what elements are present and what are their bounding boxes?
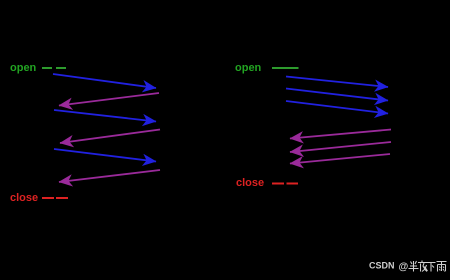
- svg-text:open: open: [235, 62, 262, 74]
- open tick line (left, green dashed): [42, 67, 67, 69]
- wire: blue arrow 2 (right diagram): [286, 89, 388, 101]
- watermark glyph 半: [409, 261, 419, 272]
- wire: blue arrow 3 (right diagram): [286, 101, 388, 114]
- svg-text:CSDN: CSDN: [369, 261, 395, 271]
- wire: magenta arrow 1 (right diagram): [290, 130, 391, 139]
- svg-text:close: close: [10, 192, 38, 204]
- watermark glyph 雨: [437, 262, 447, 272]
- watermark glyph 下: [427, 263, 436, 272]
- wire: magenta arrow 2 (left diagram): [60, 130, 160, 144]
- svg-text:open: open: [10, 62, 37, 74]
- wire: magenta arrow 2 (right diagram): [290, 142, 391, 152]
- wire: magenta arrow 3 (right diagram): [290, 154, 390, 164]
- svg-text:@: @: [399, 262, 409, 273]
- open tick line (right, green): [272, 67, 299, 69]
- close tick line (left, red dashed): [42, 197, 68, 199]
- wire: blue arrow 2 (left diagram): [54, 110, 156, 122]
- wire: blue arrow 3 (left diagram): [54, 149, 156, 162]
- close tick line (right, red dashed): [272, 183, 298, 185]
- svg-text:close: close: [236, 177, 264, 189]
- wire: blue arrow 1 (right diagram): [286, 77, 388, 88]
- wire: magenta arrow 3 (left diagram): [59, 170, 160, 182]
- wire: magenta arrow 1 (left diagram): [59, 93, 159, 106]
- wire: blue arrow 1 (left diagram): [53, 74, 156, 88]
- watermark glyph 夜: [418, 261, 428, 272]
